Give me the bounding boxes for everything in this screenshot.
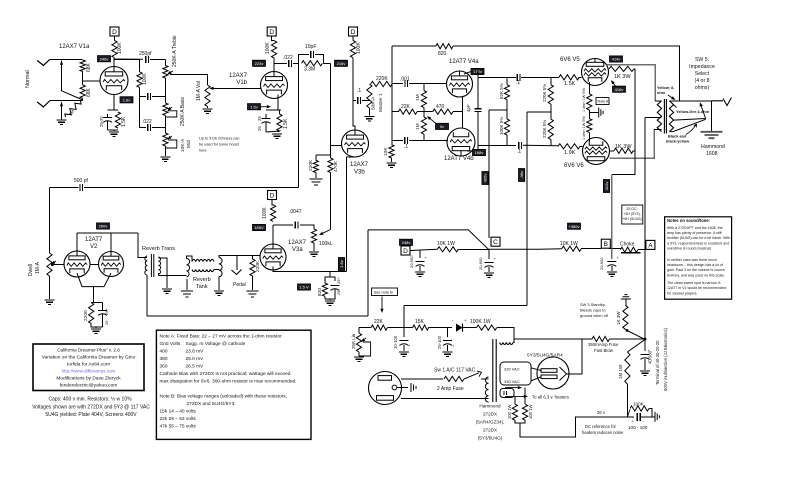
- wire 22K to 470: [417, 111, 433, 113]
- resistor 820 V3: [322, 283, 327, 296]
- svg-text:D: D: [112, 29, 117, 36]
- resistor 68K upper: [80, 60, 85, 72]
- ground 220K mute grey: [247, 291, 259, 297]
- ground 10-100: [399, 352, 409, 356]
- resistor 1.9K grid V6: [558, 144, 580, 149]
- wire 10pF left: [299, 55, 310, 64]
- svg-text:D: D: [269, 29, 274, 36]
- arrow SW5 selector: [701, 106, 705, 118]
- svg-text:.022: .022: [142, 119, 152, 125]
- wire V4b plate out: [467, 145, 478, 151]
- svg-text:-38v: -38v: [519, 171, 524, 179]
- capacitor .1 master: [358, 97, 361, 104]
- svg-text:1.6v: 1.6v: [123, 97, 131, 102]
- wire 1.9K to V6: [580, 145, 583, 147]
- wire mid wiper short: [165, 140, 176, 148]
- voltage box D supply: [400, 239, 413, 245]
- svg-text:A: A: [648, 242, 653, 249]
- svg-text:(5Y3/5U4G): (5Y3/5U4G): [478, 436, 503, 441]
- svg-text:for cleaner players.: for cleaner players.: [667, 291, 698, 295]
- wire B rail: [611, 175, 613, 249]
- svg-text:1K 3W: 1K 3W: [614, 74, 631, 80]
- svg-text:SW 5:: SW 5:: [695, 57, 709, 63]
- svg-text:Modifications by Dave Zieryck: Modifications by Dave Zieryck: [56, 376, 121, 382]
- resistor 1M input diagonal: [64, 99, 83, 119]
- resistor 100K plate V3b: [350, 41, 355, 58]
- svg-text:Pedal: Pedal: [233, 282, 246, 288]
- wire V5 plate to OT: [607, 65, 656, 101]
- wire V2a plate up: [76, 233, 78, 251]
- svg-text:22K: 22K: [401, 104, 411, 110]
- wire tank input ground lead: [186, 279, 188, 290]
- junction standby switch: [626, 329, 629, 332]
- arrow mid wiper: [171, 136, 172, 137]
- svg-text:Select: Select: [695, 71, 710, 77]
- svg-text:See note B: See note B: [374, 290, 394, 295]
- wire secondary to tank: [158, 274, 186, 276]
- wire V2 plate bus: [77, 232, 138, 234]
- wire V2 grids join: [90, 264, 99, 266]
- wire bass to mid: [164, 115, 166, 133]
- capacitor .1 V4b grid: [405, 137, 408, 144]
- svg-text:12AT7 V4a: 12AT7 V4a: [449, 59, 479, 65]
- voltage box V2 plates: [97, 223, 110, 229]
- svg-text:fenderelectric@yahoo.com: fenderelectric@yahoo.com: [60, 383, 118, 389]
- resistor 100K heater ref: [627, 410, 630, 417]
- wire cathode stub: [278, 109, 281, 111]
- wire 10pF right: [315, 55, 323, 64]
- ground C cap: [484, 273, 494, 277]
- svg-text:380: 380: [160, 356, 168, 362]
- voltage box V1a plate: [98, 56, 111, 62]
- wire secondary 8ohm tap: [669, 100, 711, 102]
- wire to 470K: [330, 63, 332, 155]
- wire cathode down: [91, 287, 93, 303]
- svg-text:With a 272DXPT and the 1608, t: With a 272DXPT and the 1608, the: [667, 226, 723, 230]
- resistor 68K lower: [80, 85, 85, 98]
- svg-text:820: 820: [317, 288, 323, 296]
- wire 82K to 100K: [506, 100, 508, 119]
- svg-text:Reverb: Reverb: [193, 277, 211, 283]
- arrow grid tap top: [61, 65, 63, 68]
- resistor 100K 5%: [504, 119, 509, 135]
- fuse 2 Amp: [444, 376, 464, 381]
- voltage box V4a plate: [471, 68, 484, 74]
- svg-text:12AT7: 12AT7: [85, 237, 103, 243]
- triode V1a: [100, 67, 128, 95]
- ground DC ref: [655, 412, 659, 422]
- svg-text:10K: 10K: [383, 147, 389, 156]
- resistor 470K: [328, 158, 333, 173]
- svg-text:100K 1W: 100K 1W: [470, 319, 491, 325]
- svg-text:68K: 68K: [86, 62, 92, 72]
- svg-text:Note A: Fixed Bias: 22 – 27 mV: Note A: Fixed Bias: 22 – 27 mV across th…: [160, 334, 283, 340]
- resistor 1 ohm 1W 5% lower: [587, 119, 592, 133]
- node D V1b supply: [267, 27, 276, 36]
- svg-text:330 VAC: 330 VAC: [504, 379, 520, 384]
- svg-text:a 5Y3, responsiveness is excel: a 5Y3, responsiveness is excellent and: [667, 241, 729, 245]
- wire 4pF bottom lead: [477, 111, 479, 145]
- node A: [646, 240, 655, 249]
- svg-text:black-yellow: black-yellow: [666, 139, 690, 144]
- wire diode to 100K: [463, 327, 477, 329]
- ground standby bleed: [621, 295, 631, 299]
- svg-text:1M-A: 1M-A: [35, 261, 41, 274]
- wire V4a plate down: [477, 72, 479, 109]
- svg-text:Terminal of 40-20-20-20: Terminal of 40-20-20-20: [655, 340, 660, 385]
- voltage box after 3.3M: [335, 60, 348, 66]
- svg-text:412v: 412v: [604, 182, 609, 191]
- resistor 220K V3b grid: [313, 160, 318, 172]
- arrow PI bias: [430, 119, 437, 125]
- wire 3.3M out: [323, 62, 330, 64]
- svg-text:260v: 260v: [99, 224, 108, 229]
- wire to primary top: [143, 256, 147, 258]
- capacitor 25-25 V1a: [103, 117, 112, 119]
- resistor 820 NFB: [436, 44, 453, 49]
- wire 220K mute top: [252, 255, 254, 259]
- arrow screen voltage: [613, 83, 616, 87]
- svg-text:100K: 100K: [117, 42, 123, 54]
- svg-text:500 pf: 500 pf: [74, 178, 89, 184]
- resistor 100K plate V1b: [272, 41, 277, 59]
- wire 220K bottom: [315, 173, 317, 179]
- voltage box B plus: [568, 223, 581, 229]
- svg-text:ohm: ohm: [657, 91, 666, 95]
- output transformer secondary winding: [669, 101, 673, 132]
- svg-text:25: 25: [336, 290, 341, 295]
- power transformer 5V winding: [500, 389, 514, 398]
- voltage box V5 screen: [613, 86, 626, 92]
- svg-text:36 v: 36 v: [597, 410, 606, 415]
- wire 25-100 ground lead: [447, 345, 449, 351]
- node C: [491, 237, 500, 246]
- wire primary bottom: [487, 398, 489, 400]
- ground 40-500: [640, 371, 650, 375]
- svg-text:headroom – this design has a l: headroom – this design has a lot of: [667, 263, 723, 267]
- svg-text:100K: 100K: [633, 402, 645, 407]
- reverb tank output coil: [219, 258, 222, 277]
- svg-text:1M-A Vol: 1M-A Vol: [196, 81, 202, 101]
- ground D cap: [415, 272, 425, 276]
- svg-text:1.5K: 1.5K: [121, 116, 127, 127]
- triode V1b: [261, 72, 288, 99]
- svg-text:1.5K: 1.5K: [564, 81, 576, 87]
- svg-text:Grid Volts: Grid Volts: [160, 341, 181, 347]
- wire bleed ground lead: [625, 299, 627, 305]
- AC plug: [369, 372, 402, 405]
- resistor 22K PI: [398, 109, 417, 114]
- wire D cap to ground: [419, 266, 421, 271]
- inductor choke: [620, 247, 637, 252]
- svg-text:12AT7 V4b: 12AT7 V4b: [444, 156, 474, 162]
- svg-text:Tank: Tank: [196, 284, 208, 290]
- svg-text:1.6v: 1.6v: [339, 260, 344, 268]
- wire 220K to .001: [392, 83, 403, 85]
- svg-text:25-100: 25-100: [437, 335, 442, 349]
- wire slope to mid cap: [140, 87, 147, 96]
- node D V3b supply: [349, 27, 358, 36]
- arrow yellow 8ohm: [668, 95, 672, 98]
- svg-text:Notes on sound/tone:: Notes on sound/tone:: [667, 218, 710, 223]
- ground V1b cathode: [272, 134, 282, 138]
- capacitor .001: [405, 80, 408, 87]
- wire bias top run: [368, 230, 489, 249]
- wire .1 to 1.5K: [521, 76, 559, 78]
- node D V3a supply: [268, 191, 277, 200]
- wire NFB top left: [392, 45, 436, 47]
- svg-text:10K 1W: 10K 1W: [437, 241, 455, 247]
- ground master: [364, 117, 374, 121]
- capacitor 250pf: [146, 56, 149, 63]
- svg-text:405v: 405v: [483, 174, 488, 183]
- wire V6 plate to OT: [610, 130, 655, 159]
- wire cathode join: [108, 130, 118, 131]
- capacitor 10-100: [403, 328, 405, 337]
- wire bias rail: [526, 112, 528, 306]
- svg-text:100K: 100K: [262, 207, 268, 219]
- wire OT primary bottom lead: [654, 129, 661, 131]
- resistor 100 1W left: [512, 404, 517, 420]
- wire cathode junction: [588, 110, 590, 119]
- wire V1b cap lead: [265, 114, 267, 119]
- wire cap to ground: [641, 416, 655, 418]
- box note A/B block: [156, 330, 311, 439]
- wire cap to master wiper: [362, 100, 369, 102]
- wire screen to B rail: [612, 151, 635, 175]
- svg-text:Hammond: Hammond: [701, 144, 725, 150]
- wire OT primary top lead: [655, 100, 661, 102]
- svg-text:+380v: +380v: [568, 224, 579, 229]
- svg-text:20-600: 20-600: [478, 257, 483, 270]
- svg-text:272DX: 272DX: [483, 428, 497, 433]
- voltage box bias rail: [519, 169, 525, 182]
- resistor 3.3M: [302, 61, 323, 66]
- wire V3a plate: [272, 225, 274, 244]
- triode V4a: [447, 71, 473, 97]
- capacitor 20-500 C node: [488, 249, 490, 259]
- potentiometer 50K-A Master: [367, 84, 372, 108]
- svg-text:25K Lin: 25K Lin: [351, 333, 356, 349]
- triode V2b: [99, 252, 124, 277]
- wire plate 1 lead: [531, 368, 541, 371]
- potentiometer 1M-A Vol: [205, 85, 210, 107]
- triode V2a: [64, 251, 90, 277]
- svg-text:heaters reduces noise: heaters reduces noise: [582, 430, 624, 435]
- svg-text:territory, and was used on thi: territory, and was used on this scale.: [667, 273, 725, 277]
- reverb tank coil bottom: [192, 270, 214, 272]
- ground V3 cathode: [325, 301, 335, 305]
- svg-text:1.5 V: 1.5 V: [299, 285, 309, 290]
- svg-text:Yellow; 8-: Yellow; 8-: [657, 86, 675, 90]
- capacitor 25-25 V1b: [262, 118, 271, 120]
- reverb tank input coil: [187, 259, 190, 278]
- wire to 1M bleeder: [627, 340, 645, 353]
- input jack J2 bottom: [37, 101, 50, 107]
- svg-text:Up to 5 Db richness can: Up to 5 Db richness can: [199, 137, 240, 141]
- wire tank rows to output: [214, 269, 219, 271]
- svg-text:25: 25: [257, 116, 262, 121]
- reverb transformer secondary: [158, 257, 160, 274]
- wire 470 to cathodes: [453, 111, 463, 113]
- svg-text:max dissipation for 6V6. 300-o: max dissipation for 6V6. 300-ohm resisto…: [160, 379, 297, 385]
- svg-text:100kL: 100kL: [319, 241, 333, 247]
- svg-text:D: D: [270, 192, 275, 199]
- wire heater to R right: [524, 388, 526, 405]
- wire V6 screen: [610, 150, 615, 152]
- capacitor 25-25 V3: [330, 285, 339, 287]
- capacitor 10pF: [311, 51, 314, 58]
- reverb transformer core: [151, 254, 153, 277]
- voltage box V5 plate: [610, 56, 623, 62]
- wire plate bus to reverb trans: [138, 233, 143, 258]
- svg-text:12AX7: 12AX7: [229, 73, 248, 79]
- wire bias feed horizontal: [404, 305, 527, 307]
- svg-text:1 ohm 1W 5%: 1 ohm 1W 5%: [582, 116, 586, 140]
- voltage box V4b plate: [473, 149, 486, 155]
- wire B to choke: [609, 248, 621, 250]
- wire jack2: [50, 100, 83, 102]
- voltage box B rail: [603, 180, 609, 193]
- capacitor 25-25 V2: [98, 310, 107, 312]
- wire C rail: [488, 110, 490, 238]
- wire V3b cathode down: [347, 157, 356, 271]
- arrow grid tap bottom: [61, 106, 63, 109]
- wire D to 100K: [114, 36, 116, 41]
- wire 220K lower bottom: [550, 140, 552, 146]
- resistor 1.5K V1b: [277, 114, 282, 131]
- svg-text:0v: 0v: [440, 124, 444, 129]
- svg-text:470K: 470K: [333, 160, 339, 172]
- wire to 100K slope: [115, 59, 140, 72]
- svg-text:26.5 mV: 26.5 mV: [186, 364, 205, 370]
- svg-text:4pF: 4pF: [466, 104, 471, 112]
- svg-text:.1: .1: [516, 80, 520, 86]
- reverb tank coil top: [192, 259, 214, 261]
- wire tank output to V3a grid: [219, 255, 260, 257]
- wire divider tops: [316, 155, 331, 158]
- svg-text:be used for some boost: be used for some boost: [199, 143, 240, 147]
- wire 10-100 ground lead: [403, 345, 405, 351]
- ground B cap: [607, 272, 617, 276]
- ground cathode sense: [599, 108, 603, 118]
- resistor 10K tail: [389, 145, 394, 158]
- resistor 100 1W right: [523, 404, 528, 420]
- wire bass wiper short: [165, 111, 176, 117]
- resistor 100K plate V3a: [271, 205, 276, 222]
- voltage box V1b cathode: [248, 104, 261, 110]
- svg-text:248v: 248v: [402, 240, 411, 245]
- wire jack2 to ground: [61, 102, 63, 120]
- svg-text:.022: .022: [283, 55, 293, 61]
- wire 10K to C: [458, 248, 488, 250]
- ground tank output: [214, 291, 224, 295]
- svg-text:100 1W: 100 1W: [528, 405, 533, 419]
- resistor 100K plate V1a: [112, 41, 117, 58]
- wire to ground bar: [589, 112, 598, 114]
- arrow 100kL wiper: [323, 230, 331, 234]
- output transformer core: [664, 99, 666, 134]
- wire tail to 22K: [392, 111, 398, 113]
- wire plate to .0047: [273, 224, 293, 226]
- pedal jack: [232, 270, 242, 275]
- resistor 82K 5%: [504, 85, 509, 100]
- wire to 1.5K: [280, 110, 282, 114]
- svg-text:In neither case was there much: In neither case was there much: [667, 258, 717, 262]
- svg-text:Cathode Bias with 272DX is not: Cathode Bias with 272DX is not practical…: [160, 371, 291, 377]
- wire to 25-25 V3: [330, 277, 335, 281]
- svg-text:Normal: Normal: [25, 70, 31, 88]
- arrow see note B: [381, 297, 383, 309]
- wire V2 cap bottom: [102, 314, 104, 327]
- svg-text:272DX and 5U4G/5Y3:: 272DX and 5U4G/5Y3:: [187, 401, 236, 407]
- svg-text:25+: 25+: [336, 277, 341, 284]
- resistor 1K 3W screen V5: [609, 66, 634, 71]
- wire V3b out tap: [353, 100, 356, 102]
- wire C to 10K2: [489, 248, 562, 251]
- svg-text:100 - 100: 100 - 100: [628, 425, 648, 430]
- arrow vol wiper: [212, 87, 215, 89]
- svg-text:1M: 1M: [415, 94, 421, 101]
- wire .1 to 1.9K: [523, 144, 558, 147]
- wire grid V1a: [83, 80, 100, 82]
- wire 220K upper stub: [550, 77, 552, 84]
- fuse 350mA: [592, 336, 610, 341]
- wire screen rail upper: [633, 69, 636, 151]
- svg-text:250K-A Treble: 250K-A Treble: [172, 35, 178, 67]
- svg-text:(4 or 8: (4 or 8: [695, 78, 710, 84]
- power transformer HV secondary bracket: [500, 362, 531, 385]
- wire NFB top right: [453, 46, 680, 101]
- wire 1M junction: [423, 108, 425, 117]
- ground vol: [203, 109, 213, 113]
- wire V3b plate up: [353, 58, 355, 130]
- svg-text:C: C: [493, 239, 498, 246]
- wire supply drop to reverb: [367, 230, 369, 316]
- wire screen join: [633, 150, 635, 152]
- wire 22K to 15K: [387, 327, 412, 329]
- capacitor bass .047: [148, 93, 151, 100]
- wire bias feed drop: [403, 306, 405, 328]
- svg-text:25: 25: [257, 126, 262, 131]
- ground 25-100: [443, 352, 453, 356]
- ground 25K: [354, 357, 364, 361]
- svg-text:Dwell: Dwell: [28, 264, 34, 276]
- wire 40-500 to ground: [644, 359, 646, 370]
- svg-text:25.0 mV: 25.0 mV: [186, 356, 205, 362]
- svg-text:82K 5%: 82K 5%: [499, 83, 504, 99]
- svg-text:12AX7: 12AX7: [350, 162, 369, 168]
- wire D to 100K V1b: [272, 36, 274, 41]
- svg-text:350mAmp Fuse: 350mAmp Fuse: [588, 342, 619, 347]
- ground input: [57, 120, 67, 124]
- potentiometer 25K Lin: [356, 333, 361, 352]
- svg-text:+3H (5Y3),: +3H (5Y3),: [623, 212, 640, 216]
- arrow 25K wiper: [364, 338, 366, 339]
- svg-text:10K-A: 10K-A: [180, 138, 186, 152]
- wire plate junction to C rail: [489, 109, 507, 111]
- svg-text:12AT7 in V1 would be recommend: 12AT7 in V1 would be recommended: [667, 286, 726, 290]
- wire V1a plate: [113, 58, 115, 67]
- svg-text:V1b: V1b: [236, 80, 247, 86]
- wire treble wiper to vol: [170, 74, 208, 85]
- wire between 68K: [82, 72, 84, 86]
- box notes on sound: [665, 217, 732, 299]
- wire 1M lower to grid line: [423, 134, 425, 140]
- wire 25K wiper loop: [359, 342, 371, 356]
- capacitor .1 upper coupling: [517, 74, 520, 81]
- voltage box V3 cathode: [298, 284, 311, 290]
